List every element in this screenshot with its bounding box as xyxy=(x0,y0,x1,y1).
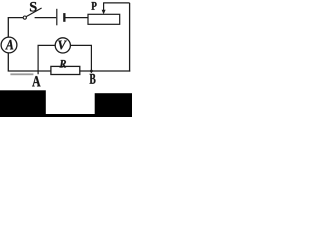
switch S blade xyxy=(26,8,41,17)
background xyxy=(0,0,132,117)
ammeter letter A xyxy=(5,40,13,50)
wire shadow (grey smudge) xyxy=(10,73,33,75)
node label A xyxy=(32,76,40,86)
label S xyxy=(30,2,37,12)
potentiometer P body xyxy=(88,14,120,24)
wire: right rail vertical xyxy=(129,3,131,72)
voltmeter V circle xyxy=(55,38,70,53)
ammeter A circle xyxy=(1,37,17,53)
wire: top-left corner (top wire to switch + left rail down to ammeter) xyxy=(8,18,23,38)
wire: voltmeter left lead down to node A xyxy=(38,45,55,74)
battery long plate xyxy=(56,9,58,26)
wire: wiper to right rail xyxy=(103,2,130,4)
label P xyxy=(91,2,96,10)
black redaction block left xyxy=(0,90,46,117)
label R xyxy=(60,60,67,68)
wire: voltmeter right lead down to node B xyxy=(70,45,91,73)
junction dot at node B xyxy=(90,70,93,73)
potentiometer wiper arrow xyxy=(102,3,106,15)
wire: ammeter bottom to bottom-left corner and along bottom to resistor xyxy=(8,53,51,71)
voltmeter letter V xyxy=(58,41,67,50)
black redaction strip bottom xyxy=(45,114,96,117)
black redaction block right xyxy=(95,93,132,117)
wire: switch right contact to battery xyxy=(35,17,57,19)
wire: resistor right to right rail xyxy=(80,70,130,72)
battery short thick plate xyxy=(63,13,65,22)
resistor R body xyxy=(51,66,80,74)
wire: battery to potentiometer xyxy=(66,17,89,19)
node label B xyxy=(90,74,96,84)
switch S pivot circle xyxy=(23,16,26,19)
